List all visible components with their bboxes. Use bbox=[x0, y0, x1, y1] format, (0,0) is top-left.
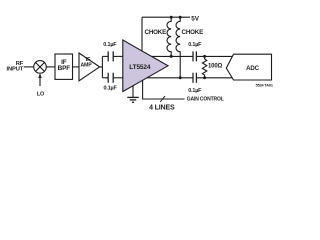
node RF INPUT label bbox=[7, 61, 24, 72]
junction right choke top bbox=[179, 16, 182, 19]
wire 5V rail bbox=[142, 16, 190, 18]
junction R1 top bbox=[203, 55, 206, 58]
junction right choke bottom bbox=[179, 76, 182, 79]
capacitor C2 0.1uF bottom input bbox=[108, 73, 113, 83]
wire IF amp output split bbox=[100, 56, 103, 77]
bandpass filter IF BPF bbox=[55, 54, 73, 79]
ground bbox=[127, 86, 138, 103]
svg-text:LT5524: LT5524 bbox=[129, 64, 151, 71]
svg-text:0.1µF: 0.1µF bbox=[104, 86, 118, 92]
op-amp U1 LT5524 bbox=[123, 40, 168, 92]
svg-text:0.1µF: 0.1µF bbox=[188, 88, 202, 94]
wire LT5524 bottom output bbox=[147, 77, 233, 79]
capacitor C4 0.1uF bottom output bbox=[193, 73, 196, 83]
wire LT5524 top output bbox=[152, 55, 234, 57]
mixer M1 bbox=[34, 61, 47, 74]
wire C1 to LT5524 bbox=[113, 55, 123, 57]
bus slash 4 lines bbox=[160, 96, 165, 102]
svg-text:LO: LO bbox=[37, 92, 45, 98]
inductor L1 choke left bbox=[167, 17, 171, 56]
svg-text:4 LINES: 4 LINES bbox=[149, 105, 175, 112]
wire to capacitor C2 bbox=[102, 77, 108, 79]
svg-text:ADC: ADC bbox=[246, 65, 260, 72]
svg-text:100Ω: 100Ω bbox=[208, 63, 223, 69]
capacitor C3 0.1uF top output bbox=[193, 51, 196, 61]
resistor R1 100ohm bbox=[202, 56, 206, 77]
wire RF input to mixer bbox=[24, 66, 34, 68]
LO port wire with arrow bbox=[38, 74, 42, 86]
svg-text:BPF: BPF bbox=[58, 65, 71, 72]
svg-text:CHOKE: CHOKE bbox=[182, 29, 204, 36]
svg-text:CHOKE: CHOKE bbox=[145, 29, 167, 36]
wire to capacitor C1 bbox=[102, 55, 108, 57]
svg-text:0.1µF: 0.1µF bbox=[103, 42, 117, 48]
inductor L2 choke right bbox=[176, 17, 180, 78]
ADC block bbox=[226, 54, 271, 80]
svg-text:INPUT: INPUT bbox=[7, 66, 24, 72]
wire C2 to LT5524 bbox=[113, 77, 123, 79]
wire 5V supply drop to LT5524 bbox=[141, 17, 143, 51]
svg-text:5V: 5V bbox=[191, 15, 199, 22]
wire mixer to IF BPF bbox=[46, 66, 55, 68]
svg-text:0.1µF: 0.1µF bbox=[188, 42, 202, 48]
capacitor C1 0.1uF top input bbox=[108, 51, 113, 61]
svg-text:AMP: AMP bbox=[80, 62, 92, 68]
svg-text:5524 TA01: 5524 TA01 bbox=[256, 84, 273, 88]
svg-text:GAIN CONTROL: GAIN CONTROL bbox=[187, 97, 224, 103]
wire IF BPF to IF amp bbox=[73, 66, 80, 68]
junction R1 bottom bbox=[203, 76, 206, 79]
wire gain control bus bbox=[143, 80, 185, 99]
op-amp IF AMP bbox=[79, 53, 100, 81]
junction left choke bottom bbox=[170, 55, 173, 58]
junction left choke top bbox=[170, 16, 173, 19]
